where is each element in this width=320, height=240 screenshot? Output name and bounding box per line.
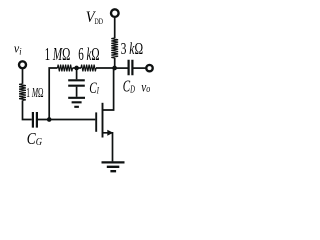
svg-text:6 kΩ: 6 kΩ bbox=[78, 44, 99, 64]
ground CI bbox=[68, 98, 85, 107]
resistor 3kohm bbox=[111, 38, 118, 58]
junction gate node bbox=[47, 117, 52, 122]
svg-text:DD: DD bbox=[95, 16, 104, 26]
transistor channel bbox=[102, 103, 104, 138]
terminal v_o bbox=[146, 65, 152, 71]
wire 6k-to-drain node bbox=[96, 67, 115, 69]
svg-text:3 kΩ: 3 kΩ bbox=[121, 39, 144, 58]
source lead with arrow bbox=[103, 133, 113, 162]
wire CG-to-gate bbox=[37, 119, 95, 121]
wire CD-to-vo bbox=[132, 67, 146, 69]
capacitor C_D plates bbox=[129, 60, 133, 75]
junction bias node bbox=[74, 66, 79, 71]
svg-text:1 MΩ: 1 MΩ bbox=[45, 44, 71, 64]
transistor gate bar bbox=[95, 112, 97, 131]
wire bias-to-CI bbox=[76, 68, 78, 79]
wire vi-to-R bbox=[22, 69, 24, 84]
resistor 6kohm bbox=[81, 65, 96, 72]
wire RD-to-drain node bbox=[114, 58, 116, 68]
capacitor C_G plates bbox=[33, 112, 37, 128]
wire CI-to-ground bbox=[76, 87, 78, 97]
resistor 1Mohm feedback bbox=[58, 65, 73, 72]
wire drain-to-CD bbox=[115, 67, 128, 69]
wire between resistors bbox=[73, 67, 82, 69]
resistor 1Mohm input bbox=[19, 84, 26, 101]
capacitor C_I plates bbox=[68, 80, 85, 85]
terminal V_DD bbox=[111, 9, 119, 17]
wire feedback vertical bbox=[49, 68, 57, 120]
source arrowhead bbox=[107, 130, 113, 136]
junction drain node bbox=[112, 66, 117, 71]
ground main bbox=[102, 162, 125, 171]
wire VDD-to-RD bbox=[114, 18, 116, 38]
svg-text:1 MΩ: 1 MΩ bbox=[26, 86, 43, 101]
terminal v_i bbox=[19, 61, 26, 68]
wire R-to-CG corner bbox=[23, 100, 32, 119]
wire drain lead bbox=[103, 68, 114, 110]
